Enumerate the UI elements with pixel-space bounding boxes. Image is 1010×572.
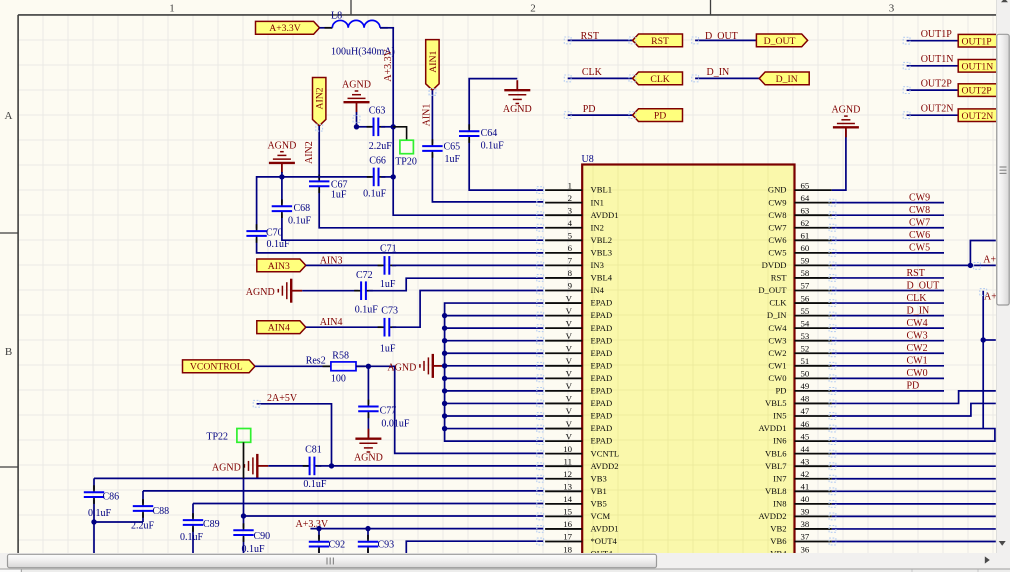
- connection marker: [537, 300, 544, 307]
- capacitor C90: [233, 523, 253, 542]
- svg-text:V: V: [566, 394, 573, 404]
- svg-text:CLK: CLK: [650, 74, 669, 85]
- svg-text:10: 10: [563, 444, 572, 454]
- connection marker: [829, 400, 836, 407]
- svg-text:V: V: [566, 293, 573, 303]
- wire C77 branch: [367, 366, 369, 437]
- connection marker: [829, 388, 836, 395]
- pin 64 CW9: [768, 193, 831, 207]
- pin 44 VBL6: [765, 444, 832, 458]
- wire C63 right: [381, 126, 393, 128]
- port RST: [633, 34, 683, 47]
- svg-text:VB6: VB6: [770, 536, 787, 546]
- wire CW1: [832, 365, 944, 367]
- wire C86 branch: [93, 478, 95, 553]
- svg-text:C64: C64: [481, 128, 498, 139]
- svg-text:8: 8: [568, 268, 573, 278]
- capacitor C73: [378, 318, 397, 337]
- pin 38 VB2: [770, 519, 832, 533]
- svg-text:1uF: 1uF: [380, 343, 396, 354]
- svg-text:AGND: AGND: [387, 362, 416, 373]
- port D_OUT: [756, 34, 807, 47]
- wire: [320, 27, 333, 29]
- junction: [365, 526, 370, 531]
- svg-text:V: V: [566, 381, 573, 391]
- pin 52 CW2: [768, 343, 831, 357]
- pin 4 IN2: [545, 218, 604, 232]
- svg-text:EPAD: EPAD: [591, 298, 613, 308]
- capacitor C66: [367, 168, 386, 187]
- svg-text:C73: C73: [381, 306, 398, 317]
- svg-text:IN2: IN2: [591, 222, 604, 232]
- svg-text:VB5: VB5: [591, 498, 607, 508]
- ruler tick: [0, 232, 18, 234]
- wire D_OUT: [832, 290, 944, 292]
- wire: [832, 515, 996, 517]
- wire VB1 row: [143, 490, 543, 492]
- svg-text:52: 52: [801, 343, 810, 353]
- wire C71 to IN3: [392, 264, 543, 266]
- svg-text:1uF: 1uF: [445, 154, 461, 165]
- svg-text:CW7: CW7: [909, 218, 930, 229]
- junction: [91, 519, 96, 524]
- svg-text:51: 51: [801, 356, 810, 366]
- svg-text:12: 12: [563, 469, 572, 479]
- horizontal scrollbar: [0, 553, 996, 569]
- wire EPAD row: [445, 352, 544, 354]
- capacitor C92: [309, 535, 329, 554]
- svg-text:2: 2: [568, 193, 572, 203]
- port OUT1P: [958, 34, 1009, 47]
- wire EPAD row: [445, 390, 544, 392]
- svg-text:AGND: AGND: [212, 462, 241, 473]
- connection marker: [537, 538, 544, 545]
- wire C64 branch: [469, 79, 543, 191]
- svg-text:VBL5: VBL5: [765, 398, 786, 408]
- connection marker: [537, 488, 544, 495]
- connection marker: [353, 116, 360, 123]
- junction: [316, 526, 321, 531]
- svg-text:C92: C92: [329, 539, 346, 550]
- svg-text:OUT1N: OUT1N: [921, 54, 954, 65]
- wire C73 to IN4: [392, 291, 543, 328]
- wire CW8: [832, 214, 944, 216]
- connection marker: [537, 388, 544, 395]
- pin 11 AVDD2: [545, 456, 618, 470]
- connection marker: [537, 249, 544, 256]
- wire CLK: [832, 302, 944, 304]
- pin 17 *OUT4: [545, 532, 617, 546]
- connection marker: [537, 375, 544, 382]
- svg-text:36: 36: [801, 544, 810, 554]
- svg-text:EPAD: EPAD: [591, 373, 613, 383]
- svg-text:61: 61: [801, 231, 810, 241]
- connection marker: [829, 538, 836, 545]
- svg-text:AGND: AGND: [267, 140, 296, 151]
- svg-text:D_OUT: D_OUT: [907, 280, 940, 291]
- wire CW6: [832, 239, 944, 241]
- wire VCNTL run: [368, 366, 543, 453]
- pin V EPAD: [545, 306, 612, 320]
- svg-text:DVDD: DVDD: [762, 260, 787, 270]
- port AIN2: [313, 78, 326, 126]
- capacitor C63: [367, 118, 386, 137]
- connection marker: [829, 526, 836, 533]
- svg-text:VBL7: VBL7: [765, 461, 787, 471]
- connection marker: [692, 37, 699, 44]
- connection marker: [537, 526, 544, 533]
- svg-text:C89: C89: [203, 519, 220, 530]
- svg-text:9: 9: [568, 281, 573, 291]
- svg-text:50: 50: [801, 369, 810, 379]
- junction EPAD bus: [442, 413, 447, 418]
- svg-text:A: A: [5, 110, 13, 122]
- EPAD bus wire: [445, 303, 544, 441]
- pin V EPAD: [545, 318, 612, 332]
- grid over IC: [582, 165, 794, 554]
- wire D_IN: [832, 315, 944, 317]
- capacitor C81: [303, 457, 322, 476]
- connection marker: [537, 425, 544, 432]
- capacitor C88: [133, 499, 153, 518]
- svg-text:AIN1: AIN1: [428, 51, 439, 73]
- svg-text:14: 14: [563, 494, 572, 504]
- port AIN1: [426, 40, 439, 91]
- pin 50 CW0: [768, 369, 831, 383]
- ground AGND (EPAD): [387, 354, 443, 378]
- svg-text:CW7: CW7: [768, 222, 787, 232]
- svg-text:48: 48: [801, 394, 810, 404]
- svg-text:CW9: CW9: [909, 192, 930, 203]
- connection marker: [537, 237, 544, 244]
- pin 8 VBL4: [545, 268, 613, 282]
- wire: [832, 465, 996, 467]
- connection marker: [537, 400, 544, 407]
- wire VCM row: [244, 515, 544, 517]
- svg-text:CLK: CLK: [907, 293, 928, 304]
- svg-text:C81: C81: [305, 445, 322, 456]
- wire TP20 stub: [393, 127, 406, 140]
- test point TP20: [400, 140, 414, 154]
- pin 3 AVDD1: [545, 205, 618, 219]
- connection marker: [829, 275, 836, 282]
- port OUT1N: [958, 60, 1009, 73]
- svg-text:CW5: CW5: [768, 247, 786, 257]
- port AIN3: [257, 259, 306, 272]
- pin 49 PD: [776, 381, 832, 395]
- svg-text:L8: L8: [331, 10, 342, 21]
- wire AGND stem to C63: [356, 112, 358, 127]
- wire EPAD row: [445, 415, 544, 417]
- capacitor C77: [358, 400, 378, 419]
- wire C93 branch: [367, 529, 369, 553]
- connection marker: [537, 325, 544, 332]
- connection marker: [829, 325, 836, 332]
- svg-text:2A+5V: 2A+5V: [267, 393, 298, 404]
- wire: [832, 541, 996, 543]
- ground AGND (C81): [212, 454, 268, 478]
- pin V EPAD: [545, 431, 612, 445]
- svg-text:CW4: CW4: [768, 323, 787, 333]
- connection marker: [829, 262, 836, 269]
- svg-text:VB2: VB2: [770, 524, 786, 534]
- wire GND to AGND: [832, 130, 846, 190]
- svg-text:D_IN: D_IN: [907, 305, 930, 316]
- wire CW5: [832, 252, 944, 254]
- wire VCONTROL: [255, 365, 331, 367]
- svg-text:U8: U8: [582, 154, 594, 165]
- svg-text:PD: PD: [654, 111, 666, 122]
- svg-text:0.1uF: 0.1uF: [303, 479, 327, 490]
- wire CW2: [832, 352, 944, 354]
- svg-text:49: 49: [801, 381, 810, 391]
- wire AIN3: [306, 264, 382, 266]
- svg-text:C90: C90: [254, 531, 271, 542]
- pin 6 VBL3: [545, 243, 612, 257]
- svg-text:VCNTL: VCNTL: [591, 448, 620, 458]
- svg-text:D_OUT: D_OUT: [764, 36, 796, 47]
- junction: [279, 174, 284, 179]
- svg-text:V: V: [566, 419, 573, 429]
- pin 43 VBL7: [765, 456, 832, 470]
- connection marker: [829, 413, 836, 420]
- junction: [241, 513, 246, 518]
- pin 62 CW7: [768, 218, 831, 232]
- capacitor C89: [183, 513, 203, 532]
- svg-text:AIN2: AIN2: [304, 141, 315, 164]
- pin 10 VCNTL: [545, 444, 619, 458]
- junction: [354, 124, 359, 129]
- svg-text:B: B: [5, 346, 12, 358]
- svg-text:15: 15: [563, 507, 572, 517]
- wire VB5 row: [193, 503, 543, 505]
- svg-text:0.1uF: 0.1uF: [363, 189, 387, 200]
- connection marker: [829, 438, 836, 445]
- junction EPAD bus: [442, 363, 447, 368]
- inductor L8: [325, 20, 388, 27]
- connection marker: [537, 500, 544, 507]
- wire CW7: [832, 227, 944, 229]
- wire OUT1N: [907, 65, 959, 67]
- wire OUT2P: [907, 89, 959, 91]
- svg-text:6: 6: [568, 243, 573, 253]
- connection marker: [829, 425, 836, 432]
- wire EPAD row: [445, 365, 544, 367]
- svg-text:VBL3: VBL3: [591, 247, 612, 257]
- svg-text:D_IN: D_IN: [767, 310, 787, 320]
- svg-text:OUT1P: OUT1P: [962, 36, 992, 47]
- connection marker: [537, 438, 544, 445]
- svg-text:D_IN: D_IN: [776, 74, 798, 85]
- connection marker: [564, 37, 571, 44]
- svg-text:AIN3: AIN3: [268, 261, 290, 272]
- connection marker: [829, 500, 836, 507]
- connection marker: [829, 513, 836, 520]
- svg-text:EPAD: EPAD: [591, 398, 613, 408]
- svg-text:7: 7: [568, 256, 573, 266]
- svg-text:CW9: CW9: [768, 197, 786, 207]
- wire OUT1P: [907, 40, 959, 42]
- connection marker: [829, 249, 836, 256]
- svg-text:CW8: CW8: [909, 205, 930, 216]
- connection marker: [537, 312, 544, 319]
- svg-text:CW8: CW8: [768, 210, 786, 220]
- port VCONTROL: [183, 360, 256, 373]
- port OUT2P: [958, 84, 1009, 97]
- svg-text:38: 38: [801, 519, 810, 529]
- svg-text:CW5: CW5: [909, 243, 930, 254]
- junction: [366, 364, 371, 369]
- svg-text:59: 59: [801, 256, 810, 266]
- capacitor C64: [459, 124, 479, 143]
- wire TP22 stub: [243, 442, 245, 478]
- svg-text:60: 60: [801, 243, 810, 253]
- connection marker: [829, 312, 836, 319]
- svg-text:62: 62: [801, 218, 810, 228]
- svg-text:V: V: [566, 406, 573, 416]
- svg-text:2: 2: [530, 3, 536, 15]
- wire PD: [568, 114, 633, 116]
- wire D_IN: [695, 77, 759, 79]
- svg-text:AGND: AGND: [246, 287, 275, 298]
- wire AGND to C81: [268, 465, 309, 467]
- svg-text:43: 43: [801, 456, 810, 466]
- svg-text:AVDD1: AVDD1: [758, 423, 786, 433]
- svg-text:1: 1: [568, 180, 572, 190]
- connection marker: [537, 463, 544, 470]
- connection marker: [537, 287, 544, 294]
- pin 5 VBL2: [545, 231, 612, 245]
- svg-text:63: 63: [801, 205, 810, 215]
- pin 41 VBL8: [765, 482, 832, 496]
- wire IN5 jog: [832, 403, 996, 416]
- svg-text:PD: PD: [907, 381, 920, 392]
- svg-text:VBL4: VBL4: [591, 273, 613, 283]
- svg-text:1uF: 1uF: [331, 189, 347, 200]
- svg-text:VBL1: VBL1: [591, 185, 612, 195]
- svg-text:17: 17: [563, 532, 572, 542]
- pin 60 CW5: [768, 243, 831, 257]
- status strip: [0, 569, 1010, 572]
- svg-text:0.1uF: 0.1uF: [267, 239, 291, 250]
- pin 63 CW8: [768, 205, 831, 219]
- pin 57 D_OUT: [758, 281, 831, 295]
- svg-text:IN4: IN4: [591, 285, 605, 295]
- connection marker: [829, 488, 836, 495]
- svg-text:VCM: VCM: [591, 511, 611, 521]
- svg-text:CW0: CW0: [768, 373, 786, 383]
- pin 15 VCM: [545, 507, 610, 521]
- wire EPAD row: [445, 428, 544, 430]
- wire: [281, 172, 283, 177]
- wire TP22/C90 vertical: [243, 478, 245, 553]
- svg-text:13: 13: [563, 482, 572, 492]
- svg-text:VB3: VB3: [591, 473, 607, 483]
- pin 55 D_IN: [767, 306, 832, 320]
- svg-text:VBL2: VBL2: [591, 235, 612, 245]
- junction EPAD bus: [442, 388, 447, 393]
- wire: [832, 478, 996, 480]
- wire C88 branch: [142, 491, 144, 522]
- svg-text:5: 5: [568, 231, 573, 241]
- svg-text:V: V: [566, 431, 573, 441]
- svg-text:58: 58: [801, 268, 810, 278]
- svg-text:EPAD: EPAD: [591, 360, 613, 370]
- wire AIN4: [306, 326, 382, 328]
- wire CW3: [832, 340, 944, 342]
- wire: [380, 27, 394, 29]
- pin 9 IN4: [545, 281, 604, 295]
- svg-text:EPAD: EPAD: [591, 411, 613, 421]
- svg-text:56: 56: [801, 293, 810, 303]
- connection marker: [429, 89, 436, 96]
- svg-text:C68: C68: [294, 203, 311, 214]
- svg-text:0.1uF: 0.1uF: [481, 140, 505, 151]
- svg-text:0.1uF: 0.1uF: [355, 305, 379, 316]
- svg-text:OUT2N: OUT2N: [921, 104, 954, 115]
- svg-text:EPAD: EPAD: [591, 348, 613, 358]
- svg-text:VBL8: VBL8: [765, 486, 786, 496]
- svg-text:VCONTROL: VCONTROL: [190, 362, 243, 373]
- wire C89 branch: [192, 504, 194, 554]
- svg-text:AVDD1: AVDD1: [591, 210, 619, 220]
- svg-text:CW6: CW6: [768, 235, 787, 245]
- svg-text:11: 11: [564, 456, 572, 466]
- connection marker: [537, 212, 544, 219]
- wire C88 ground tie: [94, 521, 143, 523]
- capacitor C72: [354, 281, 373, 300]
- ground AGND (C68/C70): [267, 140, 296, 173]
- wire C68 branch: [282, 177, 543, 240]
- ruler tick: [710, 0, 712, 15]
- pin 18 OUT4: [545, 544, 613, 558]
- test point TP22: [237, 429, 251, 443]
- pin 51 CW1: [768, 356, 831, 370]
- svg-text:V: V: [566, 306, 573, 316]
- svg-text:AVDD2: AVDD2: [591, 461, 619, 471]
- connection marker: [537, 187, 544, 194]
- svg-text:EPAD: EPAD: [591, 386, 613, 396]
- resistor R58: [323, 362, 365, 371]
- wire OUT2N: [907, 114, 959, 116]
- svg-text:A+3.3V: A+3.3V: [269, 23, 301, 34]
- wire VBL5 jog: [832, 391, 996, 404]
- connection marker: [537, 513, 544, 520]
- svg-text:Res2: Res2: [306, 355, 326, 366]
- svg-text:37: 37: [801, 532, 810, 542]
- wire: [832, 490, 996, 492]
- svg-text:1: 1: [169, 3, 175, 15]
- connection marker: [829, 350, 836, 357]
- svg-text:100: 100: [331, 374, 346, 385]
- svg-text:EPAD: EPAD: [591, 436, 613, 446]
- connection marker: [537, 275, 544, 282]
- svg-text:39: 39: [801, 507, 810, 517]
- connection marker: [829, 375, 836, 382]
- svg-text:C71: C71: [380, 243, 397, 254]
- ruler tick: [0, 466, 18, 468]
- ground AGND (C72): [246, 279, 302, 303]
- wire AIN2: [319, 126, 543, 228]
- svg-text:CLK: CLK: [769, 298, 787, 308]
- connection marker: [316, 124, 323, 131]
- capacitor C71: [378, 256, 397, 275]
- wire CW4: [832, 327, 944, 329]
- wire to AVDD2 pin: [332, 465, 544, 467]
- connection marker: [829, 450, 836, 457]
- junction EPAD bus: [442, 376, 447, 381]
- wire A+3.3V stub: [983, 339, 996, 341]
